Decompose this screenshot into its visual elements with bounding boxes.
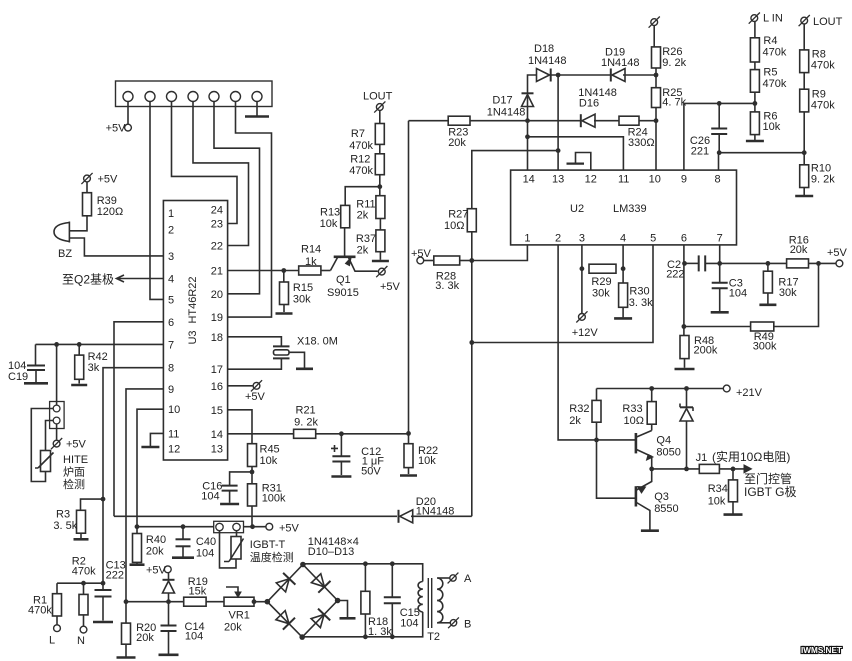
svg-text:10: 10 <box>168 404 180 416</box>
svg-text:10k: 10k <box>418 455 436 467</box>
svg-text:20k: 20k <box>790 244 808 256</box>
svg-text:+5V: +5V <box>380 281 401 293</box>
diode D10 (top-left) <box>276 573 295 592</box>
+5V terminal at Q1 emitter <box>376 266 400 293</box>
svg-text:D16: D16 <box>579 98 599 110</box>
svg-text:L: L <box>49 635 55 647</box>
svg-text:20: 20 <box>211 289 223 301</box>
wire R28 node down to pin5 line and D20 bus <box>469 261 474 517</box>
svg-text:12: 12 <box>168 444 180 456</box>
svg-text:24: 24 <box>211 205 223 217</box>
wire C2 to pin7 node and R16 <box>705 245 786 266</box>
svg-text:8: 8 <box>714 174 720 186</box>
svg-text:104: 104 <box>400 618 418 630</box>
diode D12 (bottom-left) <box>276 611 295 630</box>
resistor R7 470k <box>349 124 384 153</box>
wire R21 to C12/R22 nodes <box>316 431 411 436</box>
resistor R9 470k <box>800 89 836 112</box>
svg-text:T2: T2 <box>427 631 440 643</box>
svg-text:13: 13 <box>552 174 564 186</box>
wire U3 pin6 down-left to bottom bus <box>114 322 163 517</box>
resistor R12 470k <box>349 154 384 178</box>
svg-text:23: 23 <box>211 219 223 231</box>
clamp diode at +5V <box>163 573 175 602</box>
wire C26 node to pin8 and R9/R10 node <box>717 150 807 170</box>
resistor R31 100k <box>248 472 287 527</box>
wire connector pin3 to U3 pin23 <box>172 102 238 224</box>
svg-text:470k: 470k <box>28 605 52 617</box>
IC U3 HT46R22 <box>163 201 227 461</box>
L terminal <box>49 625 60 647</box>
svg-text:2k: 2k <box>569 415 581 427</box>
capacitor C26 221 <box>690 103 727 157</box>
svg-text:R13: R13 <box>320 207 340 219</box>
wire connector to +5V terminal <box>244 524 266 529</box>
svg-text:S9015: S9015 <box>327 287 359 299</box>
svg-text:30k: 30k <box>293 294 311 306</box>
svg-text:11: 11 <box>618 174 629 186</box>
svg-text:炉面: 炉面 <box>63 466 85 479</box>
ground under C13 <box>93 621 113 624</box>
svg-text:C40: C40 <box>196 536 216 548</box>
wire VR1 to bridge left corner <box>252 599 268 604</box>
svg-text:200k: 200k <box>694 344 718 356</box>
capacitor C3 104 <box>712 263 747 311</box>
wire R11 to R37 <box>379 219 381 230</box>
wire D19 to R26/R25 node <box>623 73 658 78</box>
svg-text:3k: 3k <box>88 362 100 374</box>
node line +5V with R40/C40 <box>135 524 214 529</box>
svg-text:222: 222 <box>666 269 684 281</box>
svg-text:R3: R3 <box>56 509 70 521</box>
ground under R17 <box>759 303 776 306</box>
svg-text:470k: 470k <box>811 60 835 72</box>
svg-text:470k: 470k <box>72 566 96 578</box>
ground under R42 <box>71 384 87 387</box>
svg-text:IWMS.NET: IWMS.NET <box>801 646 842 655</box>
svg-text:10: 10 <box>649 174 661 186</box>
svg-text:R45: R45 <box>260 444 280 456</box>
svg-text:X18. 0M: X18. 0M <box>297 336 338 348</box>
diode D19 1N4148 <box>601 47 640 82</box>
svg-text:R14: R14 <box>301 244 321 256</box>
terminal above R26 <box>649 17 660 47</box>
svg-text:20k: 20k <box>146 546 164 558</box>
svg-text:17: 17 <box>211 364 223 376</box>
svg-text:3. 3k: 3. 3k <box>435 280 459 292</box>
resistor R25 4.7k <box>652 87 687 109</box>
svg-text:Q4: Q4 <box>656 435 671 447</box>
wire R5 to node <box>754 92 756 112</box>
watermark IWMS.NET <box>801 646 842 655</box>
resistor R4 470k <box>750 35 786 62</box>
svg-text:19: 19 <box>211 312 223 324</box>
svg-text:9. 2k: 9. 2k <box>811 174 835 186</box>
svg-text:R33: R33 <box>622 403 642 415</box>
connector CN1 (8-way header) <box>116 81 273 107</box>
svg-text:D17: D17 <box>492 95 512 107</box>
ground under R40 <box>130 563 145 566</box>
wire U3 pin21 to R14 <box>228 268 299 273</box>
wire HITE connector loop <box>31 409 53 482</box>
svg-text:470k: 470k <box>763 47 787 59</box>
2-pin connector for IGBT-T sensor <box>214 521 244 532</box>
svg-text:30k: 30k <box>592 288 610 300</box>
resistor R23 20k <box>409 116 471 149</box>
resistor R33 10ohm <box>622 389 656 431</box>
svg-text:U2: U2 <box>570 203 584 215</box>
svg-text:104: 104 <box>196 548 214 560</box>
thermistor HITE (cooktop sensor) <box>35 451 88 492</box>
svg-text:2: 2 <box>168 225 174 237</box>
resistor R8 470k <box>800 49 836 73</box>
svg-text:1k: 1k <box>305 256 317 268</box>
svg-text:5: 5 <box>168 294 174 306</box>
svg-text:20k: 20k <box>224 622 242 634</box>
svg-text:LOUT: LOUT <box>363 91 393 103</box>
wire connector pin2 to U3 pin5 <box>150 102 163 300</box>
IC U2 LM339 <box>511 170 737 245</box>
potentiometer VR1 20k <box>224 587 254 634</box>
svg-text:14: 14 <box>211 429 223 441</box>
node at R25 bottom / pin10 column <box>654 118 659 170</box>
ground under C40 <box>172 556 194 559</box>
svg-text:15k: 15k <box>189 586 207 598</box>
wire U2 pin2 down to Q4/Q3 base node <box>558 245 589 440</box>
capacitor C19 104 <box>8 344 45 383</box>
resistor R34 10k <box>708 469 738 514</box>
wire U3 pin9 down to VR1 line <box>126 389 163 602</box>
svg-text:10k: 10k <box>320 218 338 230</box>
svg-text:R21: R21 <box>296 405 316 417</box>
svg-text:12: 12 <box>585 174 597 186</box>
crystal X18.0M <box>228 336 338 370</box>
svg-text:D18: D18 <box>534 43 554 55</box>
+5V terminal at R28 <box>411 248 432 264</box>
svg-text:HT46R22: HT46R22 <box>187 276 199 323</box>
wire BZ to U3 pin3 <box>69 238 163 256</box>
arrow to Q2 base (zhi Q2 ji ji) from U3 pin4 <box>62 273 163 287</box>
resistor R2 470k <box>72 556 96 627</box>
svg-text:A: A <box>464 573 472 585</box>
resistor R20 20k <box>122 602 157 657</box>
wire R25 to R24 node <box>655 108 657 121</box>
wire C13 node line <box>57 581 105 586</box>
svg-text:R34: R34 <box>708 483 728 495</box>
svg-text:B: B <box>464 619 471 631</box>
svg-text:+5V: +5V <box>146 565 167 577</box>
svg-text:+5V: +5V <box>245 391 266 403</box>
svg-text:8050: 8050 <box>656 447 680 459</box>
wire connector pin4 to U3 pin22 <box>193 102 249 246</box>
wire R19 to VR1 <box>206 601 224 603</box>
svg-text:检测: 检测 <box>63 477 85 491</box>
svg-text:470k: 470k <box>763 78 787 90</box>
ground under R3 <box>74 538 89 541</box>
resistor R11 2k <box>356 196 385 222</box>
svg-text:Q3: Q3 <box>654 491 669 503</box>
svg-text:470k: 470k <box>811 100 835 112</box>
wire R28 node to U2 pin1 <box>472 245 528 261</box>
+5V terminal above R39 <box>81 173 118 186</box>
capacitor C13 222 <box>95 560 126 621</box>
resistor R18 1.3k <box>361 564 392 638</box>
svg-text:104: 104 <box>729 288 747 300</box>
wire pin9 column to R5/R6 node line <box>684 101 757 170</box>
svg-text:至Q2基极: 至Q2基极 <box>62 273 114 287</box>
svg-text:20k: 20k <box>448 137 466 149</box>
svg-text:温度检测: 温度检测 <box>250 550 294 564</box>
bottom bus from U3 pin6 column to D20 <box>114 515 397 517</box>
wire U3 pin15 down to R45 <box>228 410 252 444</box>
node R12/R11 junction <box>377 175 382 196</box>
svg-text:120Ω: 120Ω <box>97 206 124 218</box>
svg-text:R29: R29 <box>591 276 611 288</box>
svg-text:+12V: +12V <box>572 327 599 339</box>
ground under R15 <box>276 312 293 315</box>
svg-text:300k: 300k <box>753 340 777 352</box>
svg-text:8: 8 <box>168 363 174 375</box>
svg-text:+5V: +5V <box>98 174 119 186</box>
capacitor C14 104 <box>161 602 205 654</box>
resistor R17 30k <box>763 263 798 303</box>
ground under R30 <box>614 307 632 318</box>
svg-text:至门控管: 至门控管 <box>744 471 792 486</box>
wire J1 to output arrow <box>719 465 796 499</box>
wire long vertical R23 column to R22 node <box>408 121 410 434</box>
svg-text:VR1: VR1 <box>229 610 250 622</box>
svg-text:R12: R12 <box>350 154 370 166</box>
ground under C16 <box>220 503 239 506</box>
resistor R16 20k <box>787 235 809 268</box>
wire R26 to R25 <box>655 68 657 88</box>
buzzer BZ <box>54 222 72 261</box>
svg-text:30k: 30k <box>779 287 797 299</box>
ground under C14 <box>159 653 179 656</box>
svg-text:1N4148: 1N4148 <box>528 55 567 67</box>
resistor R14 1k <box>299 244 321 276</box>
svg-text:1N4148: 1N4148 <box>601 57 640 69</box>
ground at connector pin 7 <box>245 102 269 117</box>
wire R49 to pin6 column node <box>682 324 751 329</box>
wire connector pin5 to U3 pin20 <box>214 102 260 294</box>
N terminal <box>77 626 87 647</box>
+5V terminal at connector pin 1 <box>106 102 132 135</box>
svg-text:IGBT G极: IGBT G极 <box>744 485 796 499</box>
wire pin5 line <box>472 245 653 343</box>
ground under R37 <box>372 252 389 261</box>
svg-text:9. 2k: 9. 2k <box>294 417 318 429</box>
wire pin13 column and R27 top line <box>472 75 561 209</box>
svg-text:2k: 2k <box>357 210 369 222</box>
svg-text:+5V: +5V <box>827 247 848 259</box>
ground under R10 <box>795 188 813 197</box>
transistor Q3 8550 <box>636 469 679 530</box>
terminal A <box>437 573 472 585</box>
terminal B <box>437 617 471 630</box>
wire R7 to R12 <box>379 144 381 153</box>
ground under Q3 collector <box>641 529 659 532</box>
svg-text:10k: 10k <box>708 496 726 508</box>
+5V terminal below HITE connector <box>51 424 87 451</box>
ground under R20 <box>117 656 136 659</box>
diode D11 (top-right) <box>311 574 330 593</box>
svg-text:3: 3 <box>168 251 174 263</box>
svg-text:R15: R15 <box>293 282 313 294</box>
capacitor C16 104 <box>201 472 252 503</box>
transistor Q4 8050 <box>589 431 681 469</box>
svg-text:15: 15 <box>211 405 223 417</box>
wire Q1 base to R13 <box>344 228 346 257</box>
svg-text:470k: 470k <box>349 140 373 152</box>
resistor R48 200k <box>680 327 718 368</box>
ground at bridge right corner <box>338 601 356 619</box>
resistor R27 10ohm <box>444 209 476 233</box>
svg-text:3. 5k: 3. 5k <box>53 520 77 532</box>
svg-text:470k: 470k <box>349 165 373 177</box>
svg-text:10Ω: 10Ω <box>624 415 644 427</box>
svg-text:C19: C19 <box>8 371 28 383</box>
wire U3 pin8 down to C13 node <box>101 368 164 584</box>
resistor R5 470k <box>750 67 786 93</box>
svg-text:R27: R27 <box>448 209 468 221</box>
svg-text:R4: R4 <box>763 35 777 47</box>
svg-text:4. 7k: 4. 7k <box>662 97 686 109</box>
svg-text:(实用10Ω电阻): (实用10Ω电阻) <box>712 449 790 464</box>
ground under R22 <box>400 474 417 477</box>
diode D20 1N4148 <box>399 496 455 523</box>
resistor R49 300k <box>751 322 777 352</box>
svg-text:9: 9 <box>168 384 174 396</box>
wire R8 to R9 <box>803 73 805 90</box>
transistor Q1 S9015 <box>327 257 378 299</box>
capacitor C40 104 <box>176 527 217 560</box>
svg-text:LOUT: LOUT <box>813 16 843 28</box>
svg-text:7: 7 <box>717 233 723 245</box>
diode D17 1N4148 <box>487 93 534 120</box>
svg-text:7: 7 <box>168 339 174 351</box>
svg-text:J1: J1 <box>696 452 708 464</box>
svg-text:9: 9 <box>681 174 687 186</box>
resistor R15 30k <box>280 271 314 313</box>
ground under C3 <box>711 311 729 314</box>
+5V terminal right of R16 <box>827 247 848 267</box>
svg-text:1. 3k: 1. 3k <box>368 626 392 638</box>
resistor R30 3.3k <box>619 283 654 309</box>
svg-text:18: 18 <box>211 332 223 344</box>
svg-text:6: 6 <box>681 233 687 245</box>
svg-text:10k: 10k <box>763 121 781 133</box>
+21V rail <box>597 386 724 391</box>
svg-text:2k: 2k <box>357 244 369 256</box>
wire R23 to D17/D16 line <box>470 118 530 123</box>
resistor R26 9.2k <box>652 46 687 69</box>
svg-text:5: 5 <box>650 233 656 245</box>
svg-text:9. 2k: 9. 2k <box>662 57 686 69</box>
svg-text:U3: U3 <box>187 330 199 344</box>
svg-text:8550: 8550 <box>654 503 678 515</box>
wire bridge bottom to T2 line <box>302 612 423 639</box>
offset flag symbol at U2 pin12 <box>567 153 591 171</box>
resistor R42 3k <box>75 344 108 383</box>
2-pin connector for HITE sensor <box>50 344 65 428</box>
resistor R6 10k <box>750 111 780 135</box>
wire U3 pin7 rail to C19/R42 <box>36 342 164 347</box>
capacitor C15 104 <box>384 564 420 637</box>
svg-text:2: 2 <box>555 233 561 245</box>
transformer T2 <box>418 578 443 643</box>
resistor R45 10k <box>248 444 280 472</box>
svg-text:104: 104 <box>185 631 203 643</box>
wire R39 to BZ <box>69 216 87 231</box>
diode bridge frame D10-D13 <box>265 536 359 640</box>
wire R14 to Q1 emitter-collector legs <box>321 270 331 272</box>
+12V terminal <box>572 311 599 339</box>
resistor R24 330ohm <box>594 116 656 149</box>
ground under C12 <box>331 475 351 478</box>
wire R9 to node <box>803 112 805 165</box>
wire D20 to R28 column <box>411 515 472 517</box>
+21V terminal <box>723 385 762 399</box>
diode D16 1N4148 <box>528 87 617 127</box>
resistor R28 3.3k <box>424 256 472 292</box>
svg-text:221: 221 <box>691 146 709 158</box>
resistor R40 20k <box>133 527 167 564</box>
resistor R13 10k <box>320 205 350 230</box>
ground under C19 <box>24 382 48 385</box>
ground at crystal <box>289 352 313 369</box>
resistor R22 10k <box>404 433 438 474</box>
capacitor C12 1uF 50V (electrolytic) <box>331 434 384 478</box>
wire Q4/Q3 emitters to J1 <box>649 467 699 472</box>
thermistor IGBT-T (temperature sensor) <box>220 530 294 568</box>
svg-text:+5V: +5V <box>279 523 300 535</box>
node R45/R31/C16 junction <box>250 470 255 475</box>
node and resistor R32 2k <box>569 389 601 443</box>
svg-text:6: 6 <box>168 317 174 329</box>
LOUT terminal (right) <box>799 15 843 50</box>
svg-text:11: 11 <box>168 428 179 440</box>
ground under R6 <box>746 135 764 141</box>
LOUT terminal (left) <box>363 91 393 124</box>
wire D17 node to pin11 jog <box>525 121 623 170</box>
svg-text:IGBT-T: IGBT-T <box>250 539 286 551</box>
wire U2 pin3 to +12V <box>580 245 585 314</box>
svg-text:R40: R40 <box>146 534 166 546</box>
svg-text:4: 4 <box>168 274 174 286</box>
svg-text:R5: R5 <box>763 67 777 79</box>
svg-text:1: 1 <box>168 208 174 220</box>
svg-text:R30: R30 <box>629 286 649 298</box>
+5V terminal above clamp diode <box>146 565 171 577</box>
wire U3 pin10 down to R40 node <box>137 409 163 527</box>
svg-text:330Ω: 330Ω <box>628 137 655 149</box>
svg-text:BZ: BZ <box>58 248 72 260</box>
wire R13 top to R11/R12 node <box>345 187 380 206</box>
svg-text:100k: 100k <box>262 493 286 505</box>
svg-text:10Ω: 10Ω <box>444 220 464 232</box>
svg-text:L IN: L IN <box>763 13 783 25</box>
wire R49 line to R16 node <box>774 263 819 326</box>
zener diode at +21V rail <box>680 389 693 469</box>
+5V terminal at U3 pin16 <box>228 380 266 403</box>
svg-text:+5V: +5V <box>66 439 87 451</box>
wire base node down to Q3 base <box>597 440 636 498</box>
L IN terminal <box>749 13 783 38</box>
svg-text:13: 13 <box>211 444 223 456</box>
diode D13 (bottom-right) <box>311 609 330 628</box>
svg-text:Q1: Q1 <box>336 274 351 286</box>
